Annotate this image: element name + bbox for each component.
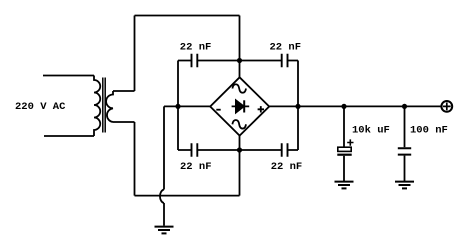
minus sign at bridge left [216, 109, 220, 111]
wire primary top lead [43, 75, 94, 77]
capacitor C3 22 nF [192, 143, 198, 157]
wire output rail [269, 105, 441, 107]
wire 10k uF drop [343, 106, 345, 147]
wire secondary bottom drop [134, 122, 136, 196]
svg-text:22 nF: 22 nF [271, 161, 303, 173]
wire bridge bottom riser [239, 136, 241, 196]
wire top rail [135, 15, 240, 17]
junction node at top of bridge [237, 58, 242, 63]
bridge rectifier B1 diamond [210, 77, 269, 135]
wire secondary top lead [113, 90, 135, 92]
svg-text:10k uF: 10k uF [352, 125, 390, 137]
wire C6 to ground [404, 156, 406, 182]
wire right snubber drop [297, 61, 299, 151]
plus sign at bridge right [258, 106, 264, 112]
capacitor C1 22 nF [192, 54, 198, 68]
junction node at C5 [341, 104, 346, 109]
AC sine mark top [232, 84, 246, 93]
svg-text:220 V AC: 220 V AC [15, 101, 66, 113]
capacitor C6 100 nF [398, 148, 411, 154]
capacitor C2 22 nF [282, 54, 288, 68]
wire bridge left to ground drop [164, 106, 210, 189]
transformer T1 secondary winding [106, 91, 113, 122]
wire left snubber drop [177, 61, 179, 151]
svg-text:22 nF: 22 nF [270, 41, 302, 53]
wire bottom snubber row [178, 149, 298, 151]
wire hop to ground [163, 203, 165, 226]
wire hop over bottom rail [160, 190, 164, 204]
wire bottom rail [135, 195, 240, 197]
capacitor C5 10k uF electrolytic [337, 147, 351, 155]
wire C5 to ground [343, 156, 345, 182]
transformer T1 core [103, 78, 105, 133]
wire secondary top riser [134, 16, 136, 92]
diode inside bridge [232, 100, 250, 112]
junction node at bottom of bridge [237, 147, 242, 152]
junction node at C6 [402, 104, 407, 109]
svg-text:22 nF: 22 nF [180, 161, 212, 173]
wire primary bottom lead [44, 135, 94, 137]
wire secondary bottom lead [113, 121, 135, 123]
svg-text:100 nF: 100 nF [410, 125, 448, 137]
transformer T1 primary winding [94, 76, 100, 137]
svg-text:22 nF: 22 nF [180, 41, 212, 53]
wire top rail drop to bridge [239, 16, 241, 78]
junction node at left of bridge [175, 104, 180, 109]
ground under C5 [335, 182, 354, 189]
ground under C6 [395, 182, 414, 189]
junction node at right of bridge [295, 104, 300, 109]
ground left [155, 227, 174, 234]
output terminal [441, 101, 452, 112]
wire top snubber row [178, 60, 298, 62]
capacitor C4 22 nF [282, 143, 288, 157]
plus sign of C5 [347, 139, 353, 145]
AC sine mark bottom [232, 120, 246, 129]
wire 100 nF drop [404, 106, 406, 147]
